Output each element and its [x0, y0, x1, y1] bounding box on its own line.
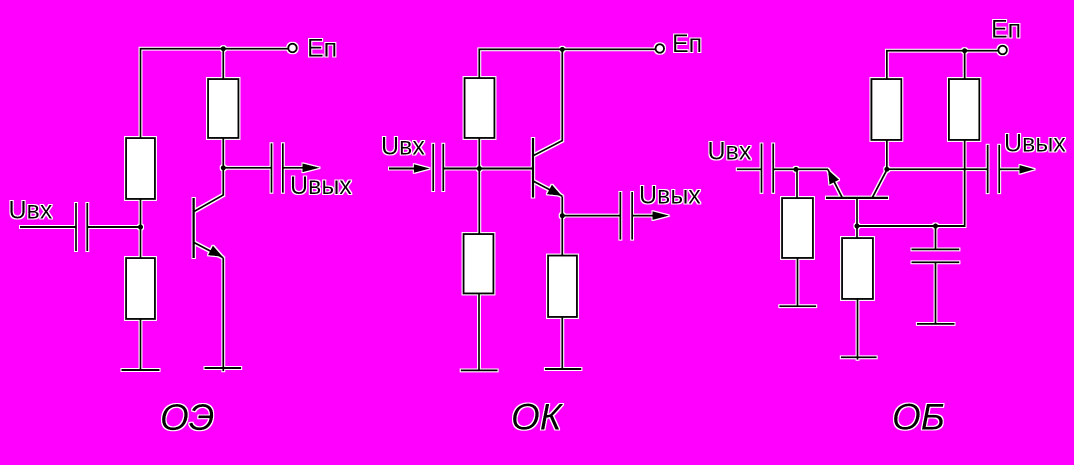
capacitor C1 (input coupling)	[76, 203, 87, 251]
svg-text:Еп: Еп	[672, 30, 702, 58]
wire: input lead	[20, 226, 76, 228]
ground (emitter)	[205, 367, 242, 369]
ground (divider)	[461, 369, 498, 371]
resistor R1 (upper divider)	[126, 138, 155, 199]
svg-text:ОК: ОК	[511, 397, 564, 438]
capacitor C2 (output coupling)	[620, 192, 632, 240]
arrow: input	[414, 164, 431, 173]
wire: R2 bottom to ground	[140, 319, 142, 370]
arrow: output	[303, 163, 321, 172]
resistor R4 (lower base divider)	[842, 238, 873, 299]
wire: C1 to base bar	[443, 168, 533, 170]
node: collector node	[221, 165, 226, 170]
wire: output lead	[999, 168, 1020, 170]
ground (divider)	[122, 369, 160, 371]
wire: emitter node to output cap	[562, 215, 620, 217]
transistor Q3 emitter arrow	[828, 170, 839, 185]
wire: supply rail with left drop to R1	[141, 49, 289, 138]
node: bypass tap	[933, 223, 938, 228]
wire: input lead	[389, 168, 415, 170]
node: input node	[793, 167, 798, 172]
transistor Q1 base bar	[192, 198, 194, 258]
svg-text:Uвых: Uвых	[1004, 129, 1066, 157]
transistor Q2 emitter arrow	[547, 185, 562, 196]
arrow: output	[653, 211, 670, 220]
wire: rail to R3 top	[222, 49, 224, 79]
wire: R1 bottom through base node to R2 top	[140, 199, 142, 258]
svg-text:ОЭ: ОЭ	[160, 397, 214, 438]
node: rail junction above R3	[221, 46, 226, 51]
svg-text:Uвх: Uвх	[9, 196, 53, 224]
capacitor C2 (output coupling)	[272, 143, 283, 193]
capacitor C2 (output coupling)	[988, 145, 1000, 193]
transistor Q1 collector lead	[194, 168, 224, 212]
transistor Q2 emitter lead	[533, 181, 562, 196]
resistor R2 (lower divider)	[126, 258, 155, 319]
wire: C3 bottom to ground	[935, 262, 937, 324]
svg-text:Еп: Еп	[307, 35, 337, 63]
svg-text:Uвх: Uвх	[708, 137, 752, 165]
ground (bypass)	[917, 323, 955, 325]
wire: C1 through input node to emitter arrow	[773, 168, 828, 170]
terminal Еп circuit1	[288, 44, 297, 53]
wire: input node to R3 top	[796, 169, 798, 198]
ground (emitter)	[545, 368, 582, 370]
terminal Еп circuit3	[998, 46, 1007, 55]
resistor R3 (emitter)	[548, 256, 577, 318]
wire: output lead	[632, 215, 653, 217]
svg-text:Uвх: Uвх	[381, 133, 425, 161]
arrow: output	[1020, 165, 1036, 174]
transistor Q1 emitter arrow	[208, 246, 223, 257]
ground (base divider)	[841, 356, 877, 358]
wire: R1 bottom to collector node	[886, 140, 888, 169]
node: base node	[138, 224, 143, 229]
resistor R3 (collector load)	[208, 79, 239, 138]
wire: emitter through node to R3 top	[561, 196, 563, 255]
transistor Q3 base lead	[856, 198, 858, 226]
wire: C1 to base node	[87, 226, 140, 228]
wire: base node to R4 top	[856, 226, 858, 238]
wire: input lead	[737, 168, 762, 170]
transistor Q3 collector lead	[872, 169, 887, 198]
capacitor C1 (input coupling)	[433, 144, 443, 191]
transistor Q2 base bar	[532, 138, 534, 198]
node: collector node	[884, 167, 889, 172]
transistor Q3 emitter lead	[828, 169, 843, 198]
svg-text:Uвых: Uвых	[290, 172, 352, 200]
wire: R1 bottom through base node to R2 top	[478, 138, 480, 234]
wire: R2 bottom to ground	[478, 294, 480, 371]
node: base node	[477, 166, 482, 171]
terminal Еп circuit2	[656, 44, 665, 53]
wire: emitter to ground	[222, 258, 224, 372]
transistor Q1 emitter lead	[194, 242, 224, 257]
wire: rail to R2 top	[964, 51, 966, 79]
wire: R4 bottom to ground	[857, 299, 859, 360]
resistor R1 (upper divider)	[465, 78, 495, 138]
svg-text:ОБ: ОБ	[892, 397, 945, 438]
node: emitter node	[560, 213, 565, 218]
wire: R2 bottom down and across to base node	[857, 140, 965, 226]
wire: supply rail with left drop to R1	[479, 49, 655, 78]
node: base node	[854, 223, 859, 228]
transistor Q2 collector lead	[533, 49, 562, 156]
ground (emitter bias)	[779, 305, 816, 307]
wire: R3 bottom to ground	[797, 258, 799, 306]
transistor Q3 base bar	[826, 197, 888, 199]
resistor R2 (upper base divider)	[949, 79, 980, 140]
wire: collector node to output cap	[887, 168, 988, 170]
wire: R3 bottom to collector node	[222, 138, 224, 168]
svg-text:Еп: Еп	[991, 15, 1021, 43]
wire: supply rail with left drop to R1	[887, 51, 998, 79]
capacitor C1 (input coupling)	[762, 144, 774, 193]
wire: collector node to output cap	[223, 167, 271, 169]
resistor R3 (emitter bias)	[782, 198, 813, 258]
svg-text:Uвых: Uвых	[639, 182, 701, 210]
resistor R1 (collector load)	[871, 79, 901, 140]
node: rail junction above collector	[560, 47, 565, 52]
capacitor C3 (base bypass)	[912, 249, 960, 262]
resistor R2 (lower divider)	[464, 234, 494, 294]
node: rail junction above R2	[962, 48, 967, 53]
wire: output lead	[283, 167, 303, 169]
wire: R3 bottom to ground	[561, 317, 563, 369]
wire: bypass tap to capacitor C3	[935, 226, 937, 249]
